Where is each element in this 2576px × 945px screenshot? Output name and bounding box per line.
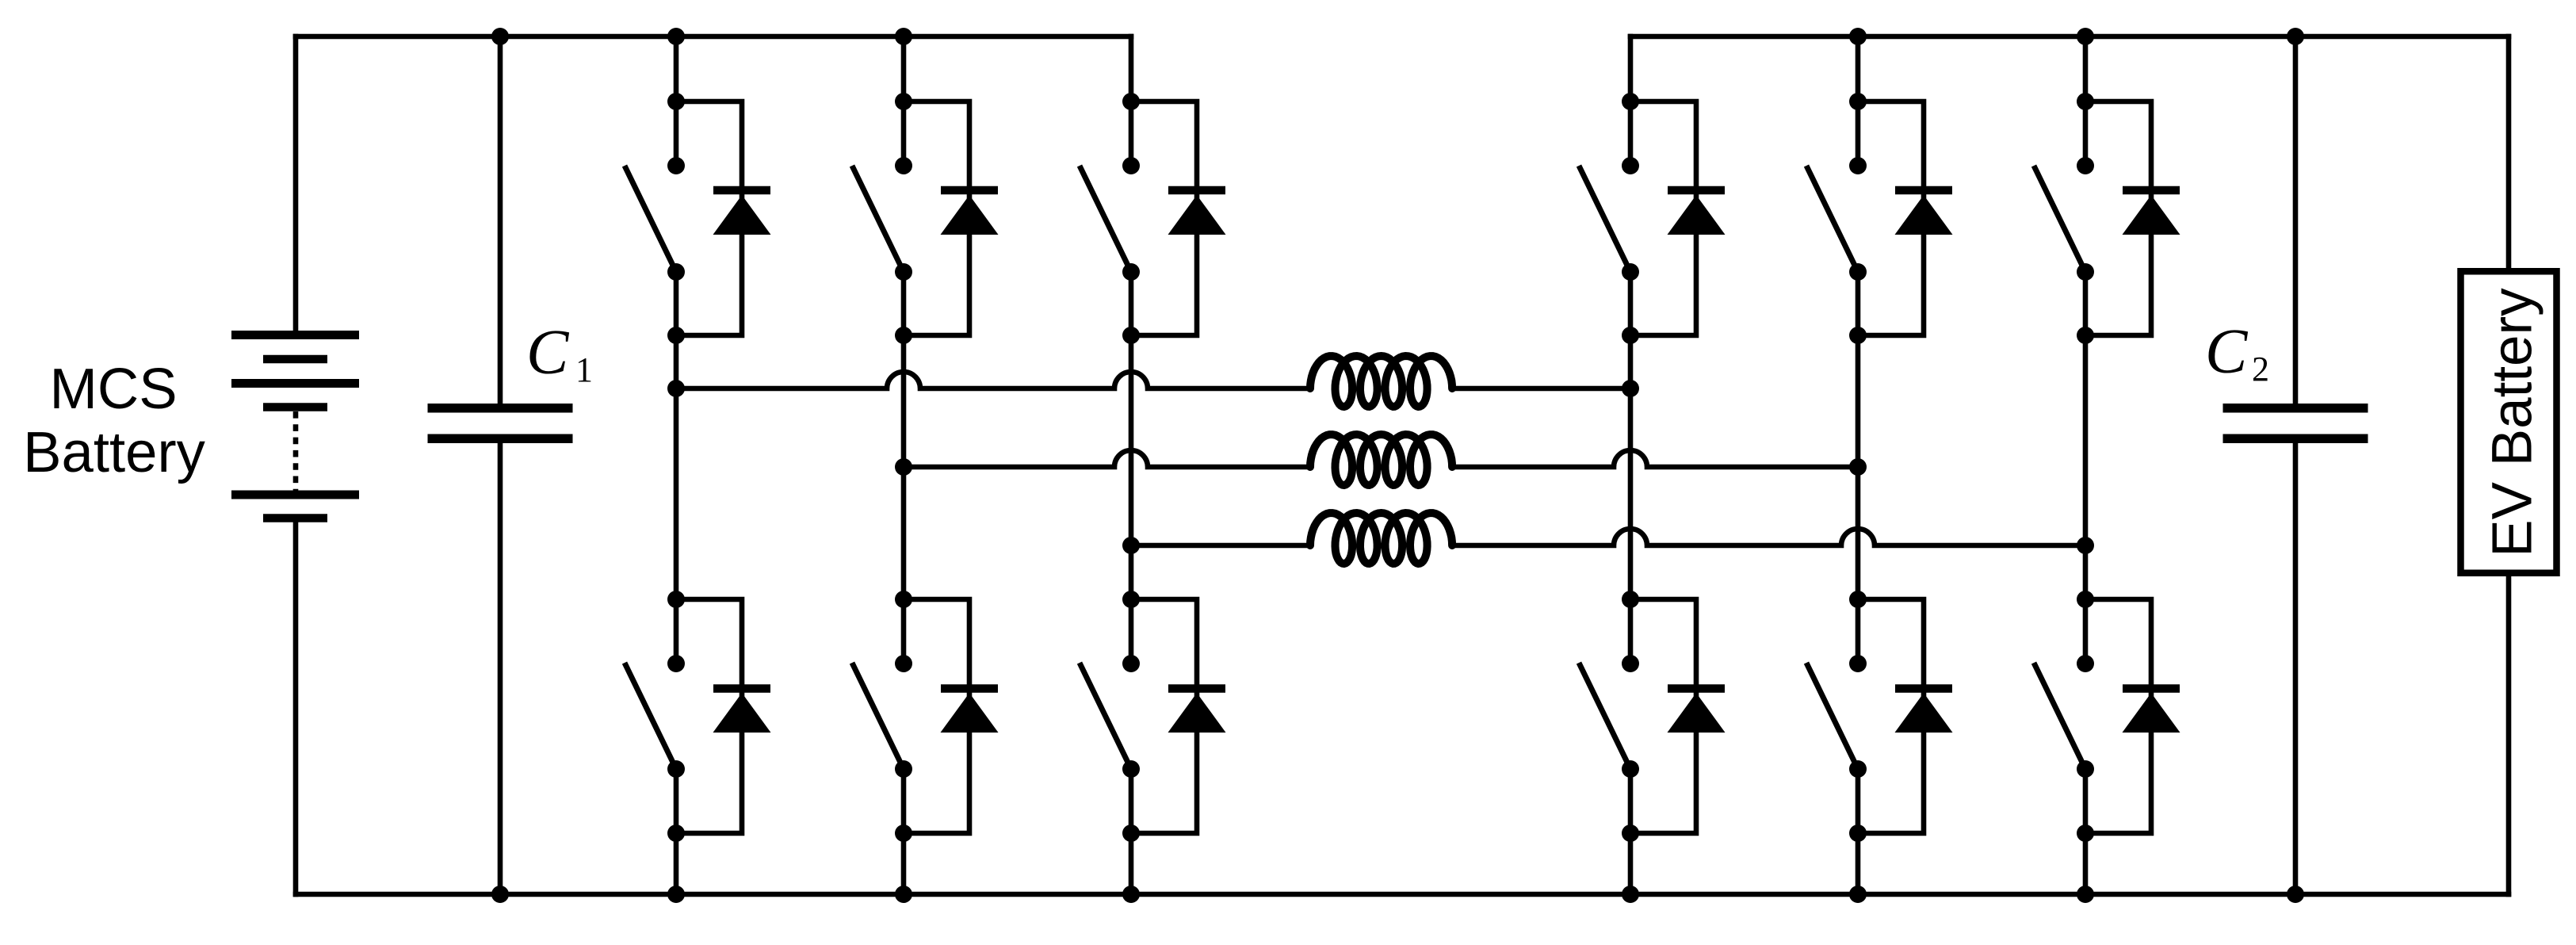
battery BT2 (EV battery box) [2461, 271, 2557, 573]
wire phase C (L3 to leg F, hops over legs D and E) [1452, 529, 2085, 545]
node phase tap on leg at y=490 [667, 380, 685, 397]
wire leg vertical (mid section) [901, 272, 907, 664]
inductor L3 (phase C) [1310, 513, 1452, 564]
node phase tap on leg at y=589 [895, 458, 912, 476]
wire leg vertical (top bus to S9) [1856, 36, 1861, 166]
junction diode D2 tap [667, 591, 685, 608]
switch S5 (ideal switch, top) [1080, 157, 1140, 281]
battery BT1 (MCS battery, multi-cell with dotted gap) [231, 331, 359, 522]
switch S10 (ideal switch, bottom) [1806, 655, 1867, 778]
switch S12 (ideal switch, bottom) [2034, 655, 2094, 778]
wire leg vertical (top bus to S11) [2083, 36, 2089, 166]
diode D4 (anti-parallel, bottom) [904, 599, 999, 833]
wire EV battery positive lead [2506, 36, 2512, 267]
wire leg vertical (bottom section to bus) [1856, 769, 1861, 894]
wire phase A (leg A to L1, hops over legs B and C) [676, 372, 1310, 388]
junction top bus / leg F [2077, 28, 2094, 45]
label C2 [2205, 317, 2269, 388]
junction diode D1 return [667, 327, 685, 344]
junction bottom bus / leg A [667, 886, 685, 903]
diode D11 (anti-parallel, top) [2085, 101, 2180, 335]
switch S6 (ideal switch, bottom) [1080, 655, 1140, 778]
wire leg vertical (bottom section to bus) [1628, 769, 1634, 894]
node phase tap on leg at y=490 [1622, 380, 1639, 397]
junction bottom bus / leg D [1622, 886, 1639, 903]
junction bottom bus / leg F [2077, 886, 2094, 903]
wire phase C (leg C to L3) [1131, 543, 1310, 549]
junction diode D11 tap [2077, 93, 2094, 110]
junction top bus / leg A [667, 28, 685, 45]
junction diode D9 return [1849, 327, 1867, 344]
wire top bus (left half, battery to leg C) [296, 34, 1131, 40]
switch S2 (ideal switch, bottom) [625, 655, 685, 778]
node phase tap on leg at y=688 [1122, 537, 1140, 554]
wire leg vertical (mid section) [2083, 272, 2089, 664]
svg-text:1: 1 [575, 350, 593, 389]
wire leg vertical (bottom section to bus) [2083, 769, 2089, 894]
wire EV battery negative lead [2506, 576, 2512, 894]
junction diode D7 tap [1622, 93, 1639, 110]
diode D7 (anti-parallel, top) [1630, 101, 1726, 335]
diode D10 (anti-parallel, bottom) [1858, 599, 1953, 833]
svg-text:C: C [2205, 317, 2249, 387]
junction diode D8 return [1622, 824, 1639, 842]
wire leg vertical (top bus to S1) [674, 36, 679, 166]
junction diode D5 tap [1122, 93, 1140, 110]
junction bottom bus / leg C [1122, 886, 1140, 903]
wire MCS battery positive lead [293, 36, 299, 331]
inductor L1 (phase A) [1310, 356, 1452, 407]
svg-text:2: 2 [2252, 350, 2269, 388]
wire MCS battery negative lead [293, 522, 299, 894]
junction diode D11 return [2077, 327, 2094, 344]
junction diode D2 return [667, 824, 685, 842]
diode D9 (anti-parallel, top) [1858, 101, 1953, 335]
junction diode D7 return [1622, 327, 1639, 344]
wire bottom bus [296, 892, 2509, 897]
svg-text:Battery: Battery [23, 420, 205, 484]
junction diode D12 tap [2077, 591, 2094, 608]
wire leg vertical (top bus to S5) [1129, 36, 1134, 166]
junction diode D6 tap [1122, 591, 1140, 608]
junction bottom bus / C1 [491, 886, 509, 903]
switch S9 (ideal switch, top) [1806, 157, 1867, 281]
wire leg vertical (top bus to S7) [1628, 36, 1634, 166]
junction bottom bus / C2 [2287, 886, 2304, 903]
wire leg vertical (mid section) [1129, 272, 1134, 664]
switch S3 (ideal switch, top) [852, 157, 912, 281]
junction diode D8 tap [1622, 591, 1639, 608]
junction top bus / leg E [1849, 28, 1867, 45]
wire phase B (leg B to L2, hops over leg C) [904, 450, 1310, 467]
junction top bus / leg B [895, 28, 912, 45]
inductor L2 (phase B) [1310, 434, 1452, 485]
junction diode D5 return [1122, 327, 1140, 344]
wire phase A (L1 to leg D) [1452, 386, 1630, 392]
node phase tap on leg at y=589 [1849, 458, 1867, 476]
junction bottom bus / leg E [1849, 886, 1867, 903]
wire phase B (L2 to leg E, hops over leg D) [1452, 450, 1858, 467]
junction diode D10 return [1849, 824, 1867, 842]
wire leg vertical (top bus to S3) [901, 36, 907, 166]
svg-text:MCS: MCS [49, 357, 177, 421]
junction top bus / C2 [2287, 28, 2304, 45]
svg-text:EV Battery: EV Battery [2482, 288, 2544, 557]
switch S4 (ideal switch, bottom) [852, 655, 912, 778]
diode D5 (anti-parallel, top) [1131, 101, 1226, 335]
junction top bus / C1 [491, 28, 509, 45]
junction diode D10 tap [1849, 591, 1867, 608]
switch S11 (ideal switch, top) [2034, 157, 2094, 281]
wire top bus (right half, leg D to EV battery) [1630, 34, 2509, 40]
wire leg vertical (mid section) [1628, 272, 1634, 664]
switch S8 (ideal switch, bottom) [1579, 655, 1639, 778]
junction diode D3 return [895, 327, 912, 344]
junction diode D6 return [1122, 824, 1140, 842]
node phase tap on leg at y=688 [2077, 537, 2094, 554]
svg-text:C: C [526, 318, 570, 388]
junction diode D1 tap [667, 93, 685, 110]
wire leg vertical (bottom section to bus) [1129, 769, 1134, 894]
diode D6 (anti-parallel, bottom) [1131, 599, 1226, 833]
switch S1 (ideal switch, top) [625, 157, 685, 281]
capacitor C1 [428, 36, 573, 894]
wire leg vertical (mid section) [674, 272, 679, 664]
diode D2 (anti-parallel, bottom) [676, 599, 771, 833]
junction diode D3 tap [895, 93, 912, 110]
junction diode D4 tap [895, 591, 912, 608]
diode D3 (anti-parallel, top) [904, 101, 999, 335]
junction bottom bus / leg B [895, 886, 912, 903]
switch S7 (ideal switch, top) [1579, 157, 1639, 281]
junction diode D12 return [2077, 824, 2094, 842]
wire leg vertical (bottom section to bus) [674, 769, 679, 894]
junction diode D4 return [895, 824, 912, 842]
junction diode D9 tap [1849, 93, 1867, 110]
diode D8 (anti-parallel, bottom) [1630, 599, 1726, 833]
wire leg vertical (bottom section to bus) [901, 769, 907, 894]
label MCS Battery [23, 357, 205, 484]
wire leg vertical (mid section) [1856, 272, 1861, 664]
label C1 [526, 318, 593, 389]
diode D12 (anti-parallel, bottom) [2085, 599, 2180, 833]
diode D1 (anti-parallel, top) [676, 101, 771, 335]
capacitor C2 [2223, 36, 2368, 894]
